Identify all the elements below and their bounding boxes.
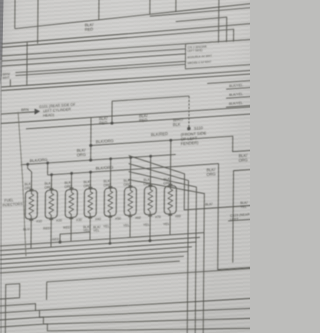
wire to ground [1, 112, 35, 114]
junction dot [70, 172, 73, 175]
junction dot [46, 161, 49, 164]
wire M2 bus [1, 107, 253, 124]
wire bus A BLK/ORG [91, 135, 255, 161]
wire inj5 down [109, 223, 111, 243]
wire [175, 0, 177, 12]
wire drop inj5 [109, 159, 111, 189]
wire bus B BLK/ORG [21, 154, 176, 164]
wire T3 [2, 39, 254, 56]
wire T6 [15, 61, 185, 72]
wire low jog 3 [0, 303, 251, 333]
wire inj7 down [149, 222, 151, 241]
wire bundle row4 [0, 247, 192, 260]
wire [14, 0, 16, 29]
wire W1 [112, 96, 189, 123]
wire diag 1 [128, 147, 254, 213]
junction dot [149, 155, 152, 158]
wire drop bus C from bus B [47, 163, 49, 175]
splice S110 drop [188, 96, 190, 128]
wire [98, 0, 100, 20]
splice S110 dot [187, 127, 190, 131]
paper crease [17, 111, 27, 257]
wire drop inj3 [70, 173, 72, 190]
paper shading [0, 0, 250, 333]
wire stub [9, 79, 11, 86]
wire right stub 2 [226, 96, 255, 98]
junction dot [110, 122, 113, 125]
injector 1 [25, 185, 37, 226]
wire T2a bus [2, 23, 254, 44]
wire right vertical [218, 161, 255, 269]
wire inj1 down [30, 226, 32, 249]
wire bundle row3 [0, 242, 196, 255]
wire elbow to inj1 [27, 164, 31, 192]
wire bundle row2 [0, 237, 200, 250]
wire M0b [1, 74, 253, 91]
wire staple left [0, 284, 20, 333]
wire low jog 4 [0, 310, 251, 333]
wire low jog 1 [0, 289, 252, 315]
wire inj4 down + bridge loop [89, 224, 91, 240]
wire inj2 down [50, 225, 52, 247]
wire right stub 3 [226, 105, 255, 107]
wire low jog 2 [0, 296, 251, 325]
wire T5 [1, 54, 185, 66]
wire upper right 1 [150, 7, 254, 16]
wire from connector down-left [207, 80, 255, 83]
junction dot [129, 156, 132, 159]
wire right vertical 2 [232, 171, 235, 263]
injector 2 [45, 185, 57, 226]
wire drop inj4 [89, 172, 91, 190]
wire drop from M3 [90, 118, 92, 161]
wire diag 2 [127, 160, 188, 333]
junction dot [26, 163, 29, 166]
wire drop inj2 [50, 175, 52, 192]
wire bundle row1 [0, 233, 204, 246]
wire M0a [1, 70, 253, 87]
injector 5 [104, 183, 116, 224]
wire T4 [2, 49, 186, 61]
injector 8 [164, 180, 176, 221]
wire right stub mid [234, 169, 253, 170]
wire bundle row7 [0, 261, 180, 273]
wire M3 bus [26, 114, 253, 129]
wire inj8 down [169, 221, 171, 235]
wire inj3 down [70, 224, 72, 241]
junction dot [169, 139, 172, 142]
injector 6 [124, 182, 136, 223]
connector box C1 [185, 39, 255, 69]
ground G101 [35, 108, 41, 114]
junction dot [109, 157, 112, 160]
injector 7 [144, 181, 156, 222]
wire [37, 0, 39, 44]
wire diag 3 [127, 167, 196, 333]
junction dot [89, 144, 92, 147]
junction dot [109, 242, 112, 245]
wire diag 4 [127, 175, 204, 333]
wire [149, 0, 151, 14]
wire inj6 down [129, 222, 131, 237]
wire bus C BLK/ORG [48, 164, 219, 175]
junction dot [89, 158, 92, 161]
wire T7 [15, 64, 185, 75]
junction dot [89, 171, 92, 174]
wire right stub 1 [226, 87, 255, 89]
wire right lower stub [228, 219, 254, 221]
wire bundle row6 [0, 256, 184, 268]
wire bundle row5 [0, 252, 188, 264]
photo shadow left edge [0, 0, 4, 85]
injector 4 [84, 183, 96, 224]
wire T2b bus [2, 29, 234, 57]
wire [218, 0, 220, 43]
junction dot [50, 173, 53, 176]
wire drop inj8 [169, 140, 171, 187]
wire T1 bus [15, 4, 252, 29]
wire long low [47, 268, 252, 282]
wire [26, 42, 28, 85]
wire upper right 2 [176, 17, 227, 45]
injector 3 [65, 184, 77, 225]
wire drop inj6 [129, 157, 131, 188]
junction dot [148, 239, 151, 242]
wire drop inj7 [149, 156, 151, 188]
junction dot [59, 240, 62, 243]
